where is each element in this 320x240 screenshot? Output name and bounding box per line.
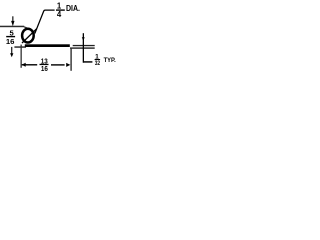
svg-text:DIA.: DIA. xyxy=(66,4,80,13)
svg-text:16: 16 xyxy=(41,66,48,73)
svg-text:16: 16 xyxy=(6,37,15,46)
svg-text:TYP.: TYP. xyxy=(104,57,116,64)
svg-text:32: 32 xyxy=(95,60,101,67)
svg-text:4: 4 xyxy=(57,10,62,19)
